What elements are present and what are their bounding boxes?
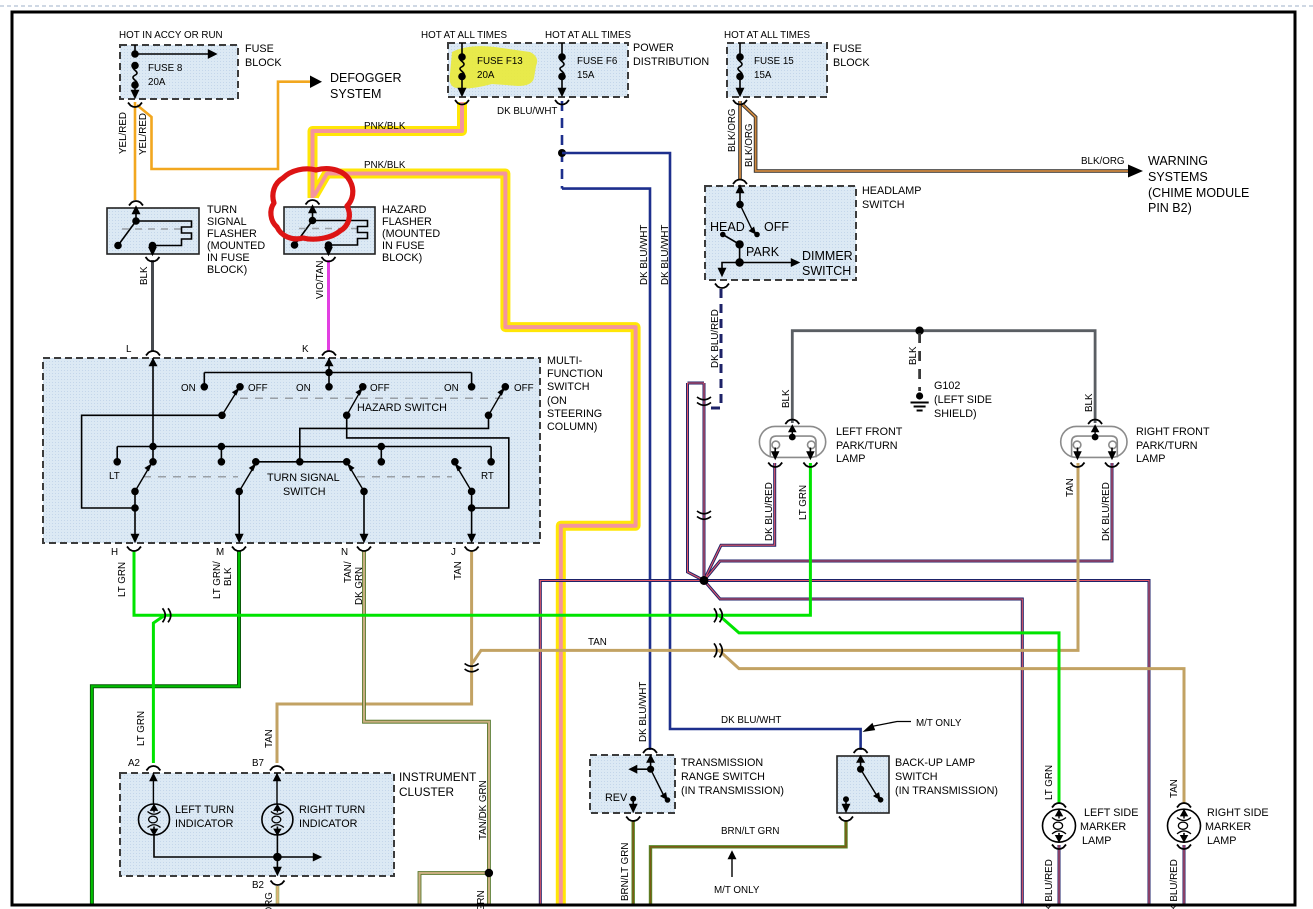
svg-text:DK BLU/WHT: DK BLU/WHT: [660, 225, 671, 285]
svg-text:MARKER: MARKER: [1205, 821, 1251, 833]
connector right lamp DK BLU/RED exit: [1105, 463, 1119, 468]
MFS turn signal pole A (H): [132, 465, 151, 541]
svg-text:ON: ON: [444, 383, 459, 394]
print margin dashed line: [0, 5, 1313, 7]
transmission range switch internals: [630, 756, 670, 811]
svg-text:FUSE F6: FUSE F6: [577, 56, 618, 67]
wire DK BLU/WHT dashed from fuse F6 down to junction: [561, 101, 564, 189]
node BLK junction dot: [915, 327, 923, 335]
svg-text:RT: RT: [481, 471, 494, 482]
connector cluster terminal A2: [146, 766, 160, 771]
svg-text:PIN B2): PIN B2): [1148, 201, 1192, 215]
svg-text:RANGE SWITCH: RANGE SWITCH: [681, 771, 765, 783]
MFS hazard pivot3 link to center contact: [300, 415, 489, 462]
MFS turn signal linkage dashed: [143, 476, 452, 478]
connector below fuse F6: [555, 100, 569, 105]
svg-text:(CHIME MODULE: (CHIME MODULE: [1148, 186, 1249, 200]
fuse 15 (15A): [737, 43, 743, 95]
red core stripes of DK BLU/RED wires: [540, 383, 1184, 906]
svg-text:DK BLU/WHT: DK BLU/WHT: [721, 715, 781, 726]
leader arrow M/T ONLY (BRN/LT GRN): [729, 852, 735, 877]
MFS turn signal contacts row: [114, 459, 494, 465]
svg-text:BRN/LT GRN: BRN/LT GRN: [620, 843, 631, 901]
svg-text:IN FUSE: IN FUSE: [382, 240, 425, 252]
svg-text:DK BLU/RED: DK BLU/RED: [764, 482, 775, 541]
wire DK BLU/RED junction to right front park lamp: [704, 463, 1112, 581]
wire BLK/ORG from fuse 15 to headlamp switch: [738, 101, 742, 180]
svg-text:LT GRN: LT GRN: [136, 711, 147, 746]
svg-text:RIGHT TURN: RIGHT TURN: [299, 804, 365, 816]
svg-text:BLK: BLK: [139, 266, 150, 285]
wire TAN/DK GRN branch at junction to bottom: [420, 873, 489, 906]
svg-text:SIGNAL: SIGNAL: [207, 216, 247, 228]
svg-text:HAZARD SWITCH: HAZARD SWITCH: [357, 402, 447, 414]
svg-text:BACK-UP LAMP: BACK-UP LAMP: [895, 757, 975, 769]
svg-text:J: J: [451, 547, 456, 558]
svg-text:LAMP: LAMP: [1136, 453, 1165, 465]
svg-text:MARKER: MARKER: [1080, 821, 1126, 833]
wire LT GRN/BLK from MFS terminal M to bottom: [92, 551, 239, 906]
svg-text:(IN TRANSMISSION): (IN TRANSMISSION): [681, 785, 784, 797]
svg-text:20A: 20A: [477, 70, 495, 81]
svg-text:HAZARD: HAZARD: [382, 204, 427, 216]
svg-text:LEFT SIDE: LEFT SIDE: [1084, 807, 1138, 819]
svg-text:A2: A2: [128, 758, 140, 769]
svg-text:BLK: BLK: [223, 567, 234, 586]
transmission range switch box: [590, 755, 675, 813]
connector MFS terminal J: [465, 547, 479, 552]
multi-function switch box: [43, 358, 540, 543]
svg-text:DK BLU/WHT: DK BLU/WHT: [497, 106, 557, 117]
connector MFS terminal K: [322, 351, 336, 356]
svg-text:YEL/RED: YEL/RED: [138, 113, 149, 155]
svg-text:STEERING: STEERING: [547, 408, 602, 420]
svg-text:POWER: POWER: [633, 42, 674, 54]
connector above right front park lamp: [1088, 420, 1102, 425]
wire DK BLU/RED below left side marker lamp: [1058, 845, 1061, 906]
left side marker lamp: [1043, 809, 1076, 842]
svg-text:FLASHER: FLASHER: [207, 228, 257, 240]
svg-text:LAMP: LAMP: [1082, 835, 1111, 847]
fuse block 1 box (FUSE 8): [120, 45, 238, 99]
MFS main bus: [117, 444, 491, 462]
svg-text:SWITCH: SWITCH: [547, 381, 590, 393]
right side marker lamp: [1168, 809, 1201, 842]
svg-text:PARK/TURN: PARK/TURN: [1136, 440, 1198, 452]
svg-text:BLOCK): BLOCK): [382, 252, 422, 264]
svg-text:PARK/TURN: PARK/TURN: [836, 440, 898, 452]
turn signal flasher box: [107, 208, 199, 254]
arrowhead to defogger system: [310, 76, 322, 89]
svg-text:PNK/BLK: PNK/BLK: [364, 160, 406, 171]
svg-text:TURN: TURN: [207, 204, 237, 216]
right turn indicator bulb: [262, 773, 293, 835]
svg-text:YEL/RED: YEL/RED: [118, 112, 129, 154]
connector above turn signal flasher: [129, 201, 143, 206]
svg-text:LAMP: LAMP: [836, 453, 865, 465]
connector below fuse F13: [455, 100, 469, 105]
connector above back-up lamp switch: [854, 749, 868, 754]
svg-text:FUSE F13: FUSE F13: [477, 56, 523, 67]
svg-text:TAN: TAN: [264, 729, 275, 748]
svg-text:TAN: TAN: [453, 561, 464, 580]
wire DK BLU/RED riser with inline connectors: [703, 383, 706, 581]
connector above left front park lamp: [785, 420, 799, 425]
wire BRN/LT GRN from transmission range switch REV: [632, 820, 635, 906]
wire PNK/BLK from hazard flasher around multi-function switch to bottom: [314, 174, 636, 907]
connector below transmission range switch: [626, 817, 640, 822]
svg-text:HEAD: HEAD: [710, 220, 745, 234]
svg-text:BLK/ORG: BLK/ORG: [1081, 156, 1125, 167]
svg-text:SWITCH: SWITCH: [895, 771, 938, 783]
wire PNK/BLK from fuse F13 to hazard flasher: [313, 102, 463, 198]
svg-text:RIGHT SIDE: RIGHT SIDE: [1207, 807, 1269, 819]
svg-text:HOT AT ALL TIMES: HOT AT ALL TIMES: [421, 30, 507, 41]
svg-text:TAN/DK GRN: TAN/DK GRN: [478, 780, 489, 840]
hazard flasher internals: [292, 206, 368, 254]
MFS turn signal pole C (N): [349, 465, 368, 541]
wire DK BLU/RED below right side marker lamp: [1183, 845, 1186, 906]
wire BLK/ORG branch to warning systems: [742, 104, 1129, 171]
MFS hazard switch blades: [219, 389, 504, 418]
svg-text:TAN: TAN: [588, 637, 607, 648]
svg-text:N: N: [341, 547, 348, 558]
svg-text:HEADLAMP: HEADLAMP: [862, 185, 921, 197]
wire DK BLU/WHT from junction to transmission range switch: [562, 189, 650, 750]
svg-text:TRANSMISSION: TRANSMISSION: [681, 757, 763, 769]
inline connector on LT GRN bus (to marker branch): [714, 608, 722, 622]
svg-text:COLUMN): COLUMN): [547, 421, 597, 433]
svg-text:DIMMER: DIMMER: [802, 249, 853, 263]
svg-text:WARNING: WARNING: [1148, 154, 1208, 168]
wire BLK from turn signal flasher to MFS terminal L: [151, 260, 154, 351]
svg-text:INDICATOR: INDICATOR: [175, 818, 234, 830]
connector left lamp LT GRN exit: [803, 463, 817, 468]
highlighter mark over FUSE F13: [450, 46, 538, 88]
wire DK BLU/RED junction to bottom right exit: [704, 581, 1149, 907]
wire DK BLU/RED loop top: [688, 382, 705, 385]
svg-text:IN FUSE: IN FUSE: [207, 252, 250, 264]
junction dot DK BLU/RED: [700, 576, 709, 585]
MFS turn signal pole B (M): [236, 465, 255, 541]
connector above hazard flasher: [306, 200, 320, 205]
svg-text:DK BLU/WHT: DK BLU/WHT: [638, 682, 649, 742]
wire LT GRN branch to left side marker lamp: [719, 615, 1059, 804]
connector above left side marker lamp: [1052, 803, 1066, 808]
ground symbol G102: [911, 392, 929, 410]
wire LT GRN branch to instrument cluster A2: [153, 616, 164, 763]
fuse 8 (20A): [132, 45, 216, 97]
svg-text:L: L: [126, 344, 132, 355]
MFS hazard feed bus: [204, 373, 471, 387]
svg-text:M/T ONLY: M/T ONLY: [916, 718, 962, 729]
svg-text:DK BLU/RED: DK BLU/RED: [710, 309, 721, 368]
instrument cluster box: [120, 773, 394, 876]
svg-text:LT GRN: LT GRN: [117, 562, 128, 597]
MFS hazard pivot1 link to pole A: [82, 415, 222, 508]
wire YEL/RED from fuse 8 to turn signal flasher: [134, 102, 137, 200]
wire DK BLU/WHT from junction to back-up lamp switch: [562, 153, 861, 750]
svg-text:BLK/ORG: BLK/ORG: [727, 108, 738, 152]
wire TAN from MFS terminal J to instrument cluster B7: [277, 551, 472, 763]
svg-text:FUNCTION: FUNCTION: [547, 368, 603, 380]
svg-text:SHIELD): SHIELD): [934, 408, 977, 420]
connector above transmission range switch: [643, 749, 657, 754]
wire TAN/DK GRN from MFS terminal N to bottom: [364, 551, 489, 906]
svg-text:ON: ON: [181, 383, 196, 394]
turn signal flasher internals: [115, 207, 192, 254]
connector MFS terminal L: [146, 351, 160, 356]
svg-text:DK GRN: DK GRN: [354, 567, 365, 605]
svg-text:B7: B7: [252, 758, 264, 769]
right front park/turn lamp: [1061, 426, 1127, 457]
connector right lamp TAN exit: [1071, 463, 1085, 468]
left turn indicator bulb: [139, 773, 170, 835]
wire YEL/RED branch to defogger system: [137, 82, 311, 169]
leader arrow M/T ONLY (back-up switch): [865, 722, 911, 731]
svg-text:OFF: OFF: [370, 383, 390, 394]
svg-text:HOT AT ALL TIMES: HOT AT ALL TIMES: [724, 30, 810, 41]
svg-text:FLASHER: FLASHER: [382, 216, 432, 228]
svg-text:(MOUNTED: (MOUNTED: [207, 240, 265, 252]
headlamp switch box: [705, 186, 856, 280]
svg-text:PARK: PARK: [746, 245, 780, 259]
svg-text:OFF: OFF: [248, 383, 268, 394]
svg-text:HOT IN ACCY OR RUN: HOT IN ACCY OR RUN: [119, 30, 223, 41]
svg-text:LT: LT: [109, 471, 120, 482]
svg-text:K: K: [302, 344, 309, 355]
connector below left side marker lamp: [1052, 845, 1066, 850]
svg-text:TAN: TAN: [1169, 779, 1180, 798]
connector below fuse 8: [128, 103, 142, 108]
connector MFS terminal N: [357, 547, 371, 552]
svg-text:BRN/LT GRN: BRN/LT GRN: [721, 826, 779, 837]
red hand-drawn annotation circle at hazard flasher feed: [271, 169, 353, 240]
svg-text:TAN/: TAN/: [343, 561, 354, 583]
svg-text:LT GRN: LT GRN: [1044, 765, 1055, 800]
connector left lamp DK BLU/RED exit: [768, 463, 782, 468]
svg-text:OFF: OFF: [514, 383, 534, 394]
svg-text:G102: G102: [934, 380, 960, 392]
pink core of PNK/BLK wire 2: [314, 174, 636, 907]
svg-text:DK BLU/RED: DK BLU/RED: [1101, 482, 1112, 541]
svg-text:OFF: OFF: [764, 220, 789, 234]
svg-text:M: M: [216, 547, 224, 558]
wire BRN/LT GRN from back-up lamp switch: [651, 820, 847, 906]
svg-text:BLK/ORG: BLK/ORG: [744, 123, 755, 167]
fuse F6 (15A): [559, 43, 565, 95]
connector cluster terminal B2: [271, 881, 285, 886]
svg-text:INSTRUMENT: INSTRUMENT: [399, 770, 476, 784]
MFS hazard pivot2 link to pole D: [347, 415, 509, 508]
svg-text:TURN SIGNAL: TURN SIGNAL: [267, 472, 340, 484]
svg-text:(MOUNTED: (MOUNTED: [382, 228, 440, 240]
instrument cluster bottom link and B2 exit: [154, 835, 320, 874]
connector below hazard flasher: [322, 257, 336, 262]
back-up lamp switch box: [837, 756, 889, 813]
svg-text:15A: 15A: [754, 70, 772, 81]
power distribution box: [448, 43, 628, 97]
wire LT GRN from MFS terminal H to left front park lamp: [134, 463, 810, 615]
wire TAN from right front park lamp joining J at inline connector: [473, 463, 1079, 663]
inline connector on DK BLU/RED (upper): [697, 397, 711, 405]
svg-text:SYSTEMS: SYSTEMS: [1148, 170, 1208, 184]
svg-text:SYSTEM: SYSTEM: [330, 87, 381, 101]
svg-text:BLOCK): BLOCK): [207, 264, 247, 276]
connector MFS terminal M: [232, 547, 246, 552]
connector below fuse 15: [733, 100, 747, 105]
MFS terminal L riser: [150, 358, 156, 450]
inline connector on LT GRN bus (to A2): [163, 608, 171, 622]
hazard flasher box: [284, 207, 375, 254]
svg-text:DISTRIBUTION: DISTRIBUTION: [633, 56, 709, 68]
connector cluster terminal B7: [270, 766, 284, 771]
svg-text:BLK: BLK: [908, 346, 919, 365]
svg-text:HOT AT ALL TIMES: HOT AT ALL TIMES: [545, 30, 631, 41]
fuse F13 (20A): [459, 43, 465, 95]
svg-text:B2: B2: [252, 880, 264, 891]
MFS turn signal pole D (J): [456, 465, 475, 541]
inline connector on DK BLU/RED (lower): [697, 511, 711, 519]
node junction dot on TAN/DK GRN: [485, 869, 493, 877]
pink core of PNK/BLK wire 1: [313, 102, 463, 198]
wire DK BLU/RED dashed from headlamp switch: [704, 289, 721, 408]
MFS hazard switch linkage dashed: [240, 397, 505, 399]
node junction dot on DK BLU/WHT: [558, 149, 566, 157]
svg-text:INDICATOR: INDICATOR: [299, 818, 358, 830]
back-up lamp switch internals: [843, 756, 883, 811]
arrowhead to warning systems: [1128, 165, 1143, 178]
svg-text:DEFOGGER: DEFOGGER: [330, 71, 402, 85]
svg-text:BLK: BLK: [781, 389, 792, 408]
wire DK BLU/RED junction to bottom left exit: [540, 581, 704, 907]
svg-text:PNK/BLK: PNK/BLK: [364, 121, 406, 132]
wire BLK dashed to ground G102: [918, 333, 921, 391]
inline connector on TAN bus (to marker branch): [714, 643, 722, 657]
svg-text:TAN: TAN: [1065, 478, 1076, 497]
wire BLK between park/turn lamps: [792, 331, 1095, 423]
connector below back-up lamp switch: [839, 817, 853, 822]
svg-text:SWITCH: SWITCH: [283, 486, 326, 498]
svg-text:20A: 20A: [148, 77, 166, 88]
svg-text:FUSE 15: FUSE 15: [754, 56, 794, 67]
svg-text:LT GRN: LT GRN: [798, 485, 809, 520]
svg-text:BLOCK: BLOCK: [833, 57, 870, 69]
svg-text:H: H: [111, 547, 118, 558]
headlamp switch internals: [719, 186, 799, 275]
connector above right side marker lamp: [1177, 803, 1191, 808]
svg-text:REV: REV: [605, 792, 628, 804]
MFS terminal K riser: [326, 358, 332, 376]
svg-text:RIGHT FRONT: RIGHT FRONT: [1136, 426, 1210, 438]
svg-text:DK BLU/WHT: DK BLU/WHT: [639, 225, 650, 285]
svg-text:BLOCK: BLOCK: [245, 57, 282, 69]
connector MFS terminal H: [127, 547, 141, 552]
wire TAN/ORG below instrument cluster B2: [276, 886, 280, 906]
left front park/turn lamp: [759, 426, 825, 457]
svg-text:LEFT TURN: LEFT TURN: [175, 804, 234, 816]
svg-text:LAMP: LAMP: [1207, 835, 1236, 847]
wire VIO/TAN from hazard flasher to MFS terminal K: [327, 260, 330, 351]
svg-text:BLK: BLK: [1084, 393, 1095, 412]
wire DK BLU/RED left riser into junction: [688, 383, 703, 580]
MFS hazard switch contacts: [201, 384, 508, 390]
svg-text:LT GRN/: LT GRN/: [212, 561, 223, 599]
svg-text:M/T ONLY: M/T ONLY: [714, 885, 760, 896]
connector above headlamp switch: [733, 180, 747, 185]
svg-text:15A: 15A: [577, 70, 595, 81]
wire DK BLU/RED junction to left front park lamp: [704, 463, 775, 581]
svg-text:DK BLU/RED: DK BLU/RED: [1169, 859, 1180, 909]
svg-text:ON: ON: [296, 383, 311, 394]
svg-text:(ON: (ON: [547, 395, 567, 407]
svg-text:FUSE 8: FUSE 8: [148, 63, 183, 74]
svg-text:FUSE: FUSE: [833, 43, 862, 55]
svg-text:(LEFT SIDE: (LEFT SIDE: [934, 394, 992, 406]
fuse block 2 box (FUSE 15): [727, 43, 827, 97]
svg-text:CLUSTER: CLUSTER: [399, 785, 454, 799]
svg-text:SWITCH: SWITCH: [862, 199, 905, 211]
svg-text:(IN TRANSMISSION): (IN TRANSMISSION): [895, 785, 998, 797]
connector below turn signal flasher: [146, 257, 160, 262]
svg-text:DK BLU/RED: DK BLU/RED: [1044, 859, 1055, 909]
svg-text:VIO/TAN: VIO/TAN: [315, 261, 326, 299]
connector below headlamp switch: [715, 284, 729, 289]
inline connector on TAN J wire: [465, 664, 479, 672]
connector below right side marker lamp: [1177, 845, 1191, 850]
wire DK BLU/RED junction lower branch: [704, 581, 1022, 907]
svg-text:MULTI-: MULTI-: [547, 355, 583, 367]
svg-text:LEFT FRONT: LEFT FRONT: [836, 426, 903, 438]
wire TAN branch to right side marker lamp: [719, 650, 1184, 804]
svg-text:SWITCH: SWITCH: [802, 264, 851, 278]
svg-text:FUSE: FUSE: [245, 43, 274, 55]
